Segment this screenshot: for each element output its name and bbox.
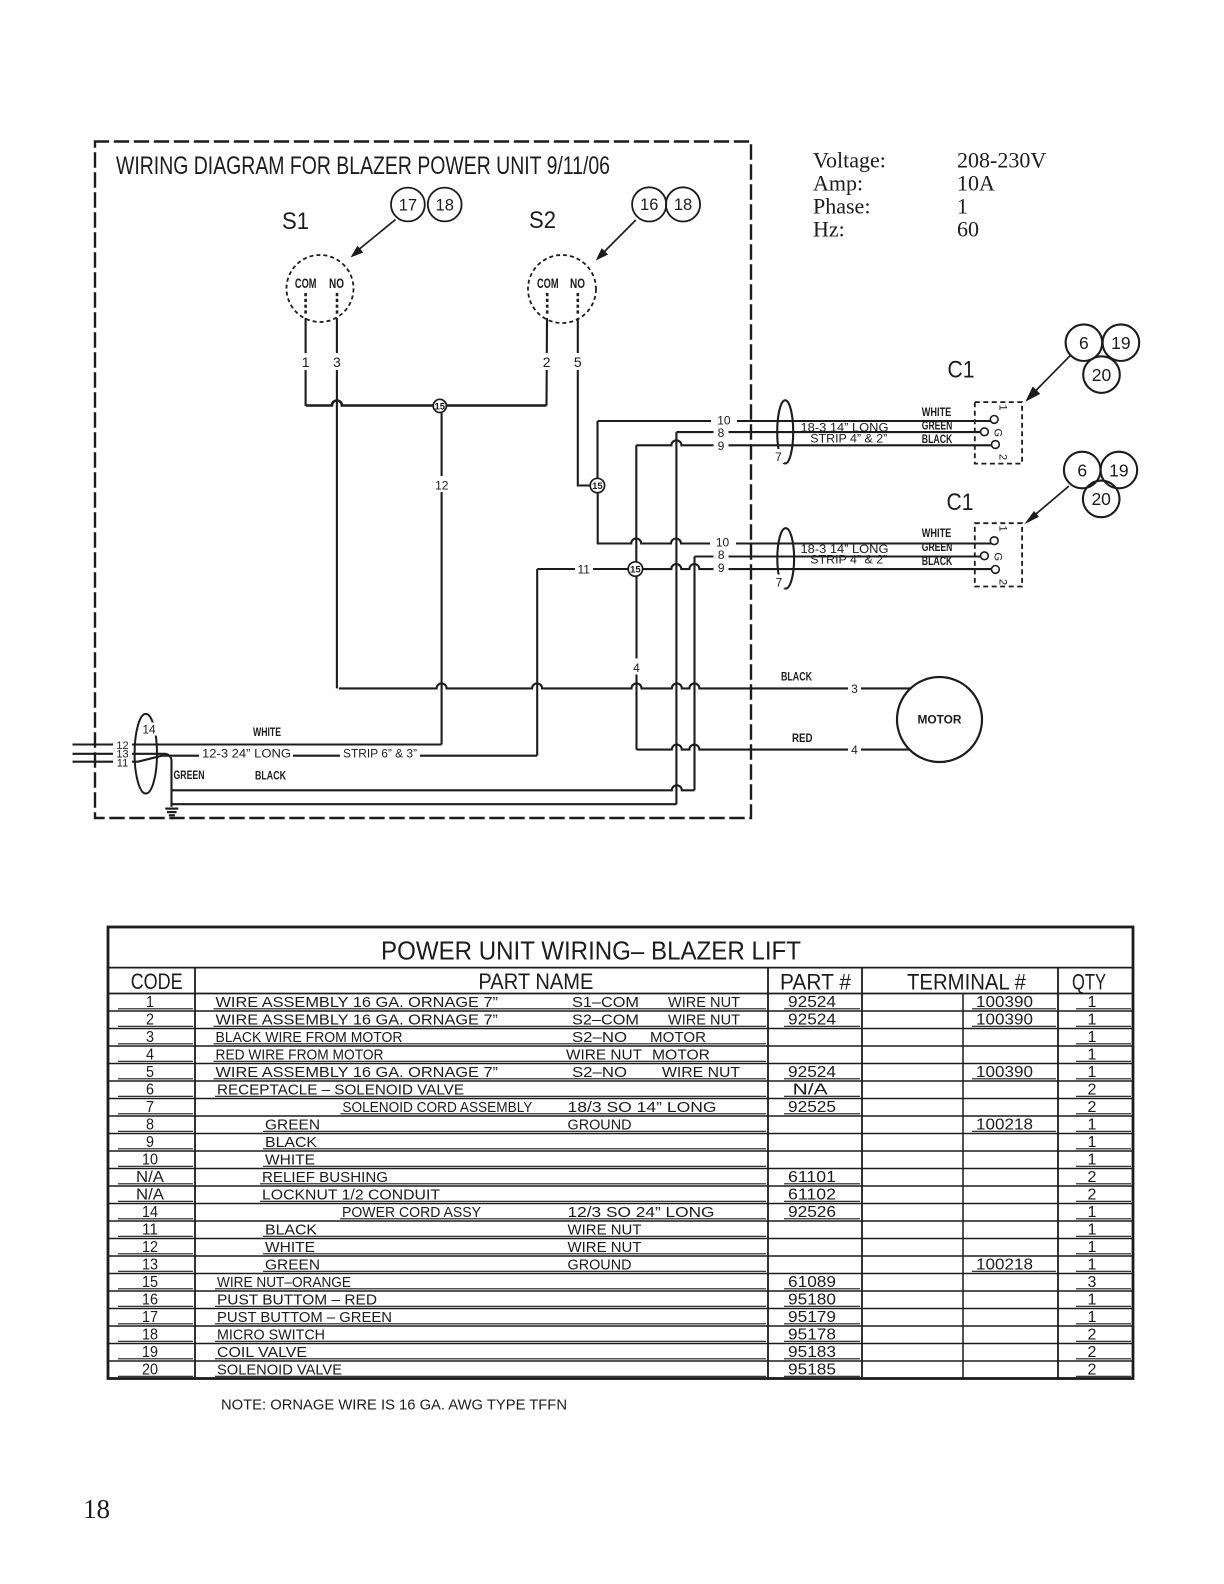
svg-text:19: 19 [1109, 460, 1128, 480]
C1 upper pin 2 [992, 441, 1009, 461]
table row 14 separator [108, 1238, 1133, 1240]
row 17 part name WIRE [215, 1274, 766, 1291]
svg-text:2: 2 [997, 579, 1009, 585]
wire 12 white from cord to wire nut A [434, 412, 450, 744]
svg-text:STRIP 4” & 2”: STRIP 4” & 2” [810, 552, 887, 566]
svg-text:POWER UNIT WIRING– BLAZER LIFT: POWER UNIT WIRING– BLAZER LIFT [381, 936, 801, 966]
wire 9 to connector C1 upper [636, 439, 991, 562]
svg-text:BLACK: BLACK [922, 556, 953, 568]
table row 15 separator [108, 1255, 1133, 1257]
row 7 code 7 [118, 1099, 193, 1116]
callout circle 6 lower [1064, 452, 1101, 489]
row 6 qty 2 [1076, 1082, 1131, 1099]
row 18 code 16 [118, 1292, 193, 1309]
row 12 code N/A [118, 1187, 193, 1204]
row 19 part number 95179 [784, 1309, 860, 1326]
S1 COM pin stub [304, 293, 307, 315]
row 9 part name BLACK [263, 1134, 766, 1151]
svg-text:WHITE: WHITE [922, 407, 952, 419]
table row 10 separator [108, 1168, 1133, 1170]
svg-text:TERMINAL #: TERMINAL # [907, 970, 1027, 995]
svg-text:WIRING DIAGRAM FOR BLAZER POWE: WIRING DIAGRAM FOR BLAZER POWER UNIT 9/1… [116, 152, 610, 180]
row 8 qty 1 [1076, 1117, 1131, 1134]
row 8 code 8 [118, 1117, 193, 1134]
table row 21 separator [108, 1360, 1133, 1362]
leader arrow to S2 [596, 220, 636, 261]
row 9 qty 1 [1076, 1134, 1131, 1151]
row 4 qty 1 [1076, 1047, 1131, 1064]
svg-text:QTY: QTY [1072, 970, 1106, 995]
table column dividers [195, 968, 1058, 1379]
row 13 part number 92526 [784, 1204, 860, 1221]
svg-text:1: 1 [997, 526, 1009, 532]
svg-text:4: 4 [851, 743, 858, 757]
row 18 part number 95180 [784, 1292, 860, 1309]
row 19 qty 1 [1076, 1309, 1131, 1326]
cord conductor labels 12 13 11 [113, 740, 132, 769]
row 16 terminal number 100218 [972, 1257, 1056, 1274]
svg-text:NOTE: ORNAGE WIRE IS 16 GA. AW: NOTE: ORNAGE WIRE IS 16 GA. AWG TYPE TFF… [221, 1397, 567, 1414]
svg-text:WHITE: WHITE [922, 528, 952, 540]
svg-text:14: 14 [142, 723, 156, 737]
svg-text:STRIP 4” & 2”: STRIP 4” & 2” [810, 432, 887, 446]
svg-text:3: 3 [333, 354, 341, 370]
row 13 part name POWER [340, 1204, 766, 1221]
row 6 code 6 [118, 1082, 193, 1099]
row 10 part name WHITE [263, 1152, 766, 1169]
row 12 qty 2 [1076, 1187, 1131, 1204]
row 20 part number 95178 [784, 1327, 860, 1344]
C1 upper pin 1 [990, 405, 1008, 424]
table row 3 separator [108, 1045, 1133, 1047]
svg-text:BLACK: BLACK [255, 770, 287, 782]
svg-text:STRIP 6” & 3”: STRIP 6” & 3” [343, 746, 417, 760]
row 21 qty 2 [1076, 1344, 1131, 1361]
table row 8 separator [108, 1133, 1133, 1135]
row 1 terminal number 100390 [972, 994, 1056, 1011]
svg-text:GREEN: GREEN [922, 420, 953, 432]
svg-text:GREEN: GREEN [174, 770, 205, 782]
row 7 part number 92525 [784, 1099, 860, 1116]
row 17 qty 3 [1076, 1274, 1131, 1291]
wire 5 S2-NO to wire nut B [571, 318, 590, 486]
svg-text:20: 20 [1091, 489, 1111, 509]
table row 7 separator [108, 1115, 1133, 1117]
leader arrow to S1 [351, 220, 396, 258]
wire nut 15 junction A [433, 399, 446, 412]
row 6 part name RECEPTACLE [215, 1082, 766, 1099]
leader arrow to C1 lower [1024, 486, 1069, 524]
row 5 code 5 [118, 1064, 193, 1081]
cord cable note 12-3 24in LONG [199, 747, 293, 761]
power cord black conductor [73, 756, 538, 762]
row 19 part name PUST [215, 1309, 766, 1326]
svg-text:3: 3 [851, 682, 858, 696]
svg-text:16: 16 [640, 196, 658, 214]
callout circle 20 lower [1083, 481, 1120, 518]
table row 1 separator [108, 1010, 1133, 1012]
row 22 part number 95185 [784, 1362, 860, 1379]
callout circle 6 upper [1066, 324, 1103, 361]
table row 4 separator [108, 1063, 1133, 1065]
table row 13 separator [108, 1220, 1133, 1222]
green wire vertical from C1 upper to ground bus [675, 432, 677, 804]
table row 18 separator [108, 1308, 1133, 1310]
svg-text:2: 2 [997, 454, 1009, 460]
svg-text:RED: RED [792, 733, 813, 745]
row 21 part name COIL [215, 1344, 766, 1361]
motor M1 [897, 677, 982, 762]
table title separator [108, 967, 1133, 969]
svg-text:PART #: PART # [780, 970, 852, 995]
row 3 code 3 [118, 1029, 193, 1046]
wire 10 to connector C1 upper [598, 413, 991, 479]
svg-text:12: 12 [435, 478, 449, 492]
row 20 code 18 [118, 1327, 193, 1344]
svg-text:12-3 24” LONG: 12-3 24” LONG [202, 747, 291, 761]
switch S2 dashed body [528, 255, 596, 323]
row 1 code 1 [118, 994, 193, 1011]
svg-text:1: 1 [302, 354, 310, 370]
row 14 qty 1 [1076, 1222, 1131, 1239]
row 11 qty 2 [1076, 1169, 1131, 1186]
svg-text:15: 15 [592, 481, 603, 492]
svg-text:C1: C1 [948, 357, 975, 384]
green ground bus to C1 lower [172, 785, 695, 790]
diagram dashed border frame [95, 142, 751, 819]
wire 11 from power cord to wire nut C [537, 562, 628, 756]
table row 12 separator [108, 1203, 1133, 1205]
cable bundle ellipse 7 upper [773, 400, 793, 464]
svg-text:GREEN: GREEN [922, 542, 953, 554]
row 1 part name WIRE [214, 994, 767, 1011]
row 14 part name BLACK [263, 1222, 766, 1239]
table row 11 separator [108, 1185, 1133, 1187]
S1 NO pin stub [336, 293, 339, 315]
row 17 code 15 [118, 1274, 193, 1291]
leader arrow to C1 upper [1025, 356, 1070, 402]
row 11 part name RELIEF [260, 1169, 766, 1186]
wire S1-COM to S2-COM horizontal [306, 401, 547, 406]
row 7 qty 2 [1076, 1099, 1131, 1116]
row 4 code 4 [118, 1047, 193, 1064]
row 2 code 2 [118, 1012, 193, 1029]
row 8 part name GREEN [263, 1117, 766, 1134]
cord cable note STRIP 6 and 3 [340, 746, 420, 760]
S2 NO pin stub [576, 293, 579, 315]
row 16 code 13 [118, 1257, 193, 1274]
callout circle 18 (S2) [666, 187, 700, 221]
svg-text:9: 9 [718, 561, 725, 575]
row 10 qty 1 [1076, 1152, 1131, 1169]
svg-text:18: 18 [83, 1494, 110, 1524]
svg-text:20: 20 [1092, 365, 1112, 385]
wire nut 15 junction B [590, 478, 604, 492]
svg-text:208-230V: 208-230V [957, 148, 1046, 173]
svg-text:9: 9 [718, 439, 725, 453]
cable bundle ellipse 7 lower [774, 528, 795, 589]
row 8 terminal number 100218 [972, 1117, 1056, 1134]
row 15 code 12 [118, 1239, 193, 1256]
row 5 terminal number 100390 [972, 1064, 1056, 1081]
callout circle 16 [632, 187, 666, 221]
wire 8 green to connector C1 lower [695, 548, 982, 562]
row 12 part number 61102 [784, 1187, 860, 1204]
svg-text:S1: S1 [282, 208, 309, 235]
C1 lower pin G [981, 552, 1004, 561]
svg-text:2: 2 [543, 354, 551, 370]
green wire vertical from C1 lower to ground bus [693, 557, 695, 791]
svg-text:15: 15 [435, 401, 446, 412]
svg-text:Hz:: Hz: [813, 217, 845, 242]
svg-text:NO: NO [329, 276, 344, 291]
row 9 code 9 [118, 1134, 193, 1151]
svg-text:BLACK: BLACK [922, 434, 953, 446]
row 2 part number 92524 [784, 1012, 860, 1029]
row 20 qty 2 [1076, 1327, 1131, 1344]
callout circle 18 (S1) [428, 188, 462, 222]
connector C1 lower dashed box [975, 523, 1022, 586]
power cord bundle ellipse 14 [135, 714, 158, 794]
svg-text:Voltage:: Voltage: [813, 148, 886, 173]
wire 10 to connector C1 lower [598, 493, 993, 550]
svg-text:MOTOR: MOTOR [918, 713, 962, 727]
svg-text:G: G [992, 553, 1004, 562]
svg-text:PART NAME: PART NAME [478, 969, 593, 994]
svg-text:6: 6 [1079, 333, 1089, 353]
row 3 qty 1 [1076, 1029, 1131, 1046]
row 5 qty 1 [1076, 1064, 1131, 1081]
row 2 qty 1 [1076, 1012, 1131, 1029]
callout circle 19 lower [1101, 452, 1138, 489]
table header separator [108, 993, 1133, 995]
row 2 part name WIRE [214, 1012, 767, 1029]
svg-text:CODE: CODE [131, 969, 183, 994]
callout circle 17 [391, 188, 425, 222]
ground symbol [165, 809, 178, 819]
row 3 part name BLACK [214, 1029, 767, 1046]
power cord green conductor [73, 754, 172, 807]
row 22 part name SOLENOID [215, 1362, 766, 1379]
row 18 part name PUST [215, 1292, 766, 1309]
svg-text:WHITE: WHITE [253, 727, 281, 739]
svg-text:8: 8 [718, 548, 725, 562]
table row 2 separator [108, 1028, 1133, 1030]
svg-text:10A: 10A [957, 171, 995, 196]
switch S1 dashed body [287, 255, 354, 322]
svg-text:19: 19 [1111, 333, 1130, 353]
svg-text:5: 5 [574, 354, 582, 370]
row 18 qty 1 [1076, 1292, 1131, 1309]
row 1 part number 92524 [784, 994, 860, 1011]
row 22 qty 2 [1076, 1362, 1131, 1379]
wire 9 to connector C1 lower [643, 561, 993, 576]
wire 2 S2-COM down [540, 318, 553, 406]
svg-text:18: 18 [436, 196, 454, 214]
row 16 qty 1 [1076, 1257, 1131, 1274]
row 21 code 19 [118, 1344, 193, 1361]
row 15 part name WHITE [263, 1239, 766, 1256]
row 22 code 20 [118, 1362, 193, 1379]
C1 upper pin G [981, 428, 1004, 437]
svg-text:4: 4 [633, 661, 640, 675]
table row 19 separator [108, 1325, 1133, 1327]
row 20 part name MICRO [215, 1327, 766, 1344]
row 13 qty 1 [1076, 1204, 1131, 1221]
row 11 part number 61101 [784, 1169, 860, 1186]
row 11 code N/A [118, 1169, 193, 1186]
row 13 code 14 [118, 1204, 193, 1221]
svg-text:7: 7 [776, 576, 783, 590]
callout circle 20 upper [1083, 356, 1120, 393]
svg-text:15: 15 [630, 565, 641, 576]
svg-text:7: 7 [775, 450, 782, 464]
row 6 part number N/A [784, 1082, 860, 1099]
wire 4 red motor wire to wire nut C [630, 576, 643, 749]
wire 8 green to connector C1 upper [676, 426, 980, 441]
table row 6 separator [108, 1098, 1133, 1100]
cord wire label GREEN [173, 769, 207, 783]
svg-text:Phase:: Phase: [813, 194, 870, 219]
svg-text:11: 11 [117, 757, 128, 769]
connector C1 upper dashed box [975, 402, 1022, 464]
row 10 code 10 [118, 1152, 193, 1169]
svg-text:1: 1 [957, 194, 968, 219]
table row 20 separator [108, 1343, 1133, 1345]
row 7 part name SOLENOID [340, 1099, 766, 1116]
svg-text:17: 17 [399, 196, 417, 214]
row 19 code 17 [118, 1309, 193, 1326]
table row 16 separator [108, 1273, 1133, 1275]
row 16 part name GREEN [263, 1257, 766, 1274]
row 1 qty 1 [1076, 994, 1131, 1011]
green ground bus to C1 upper [172, 803, 677, 805]
table row 5 separator [108, 1080, 1133, 1082]
svg-text:11: 11 [577, 563, 590, 577]
row 5 part name WIRE [214, 1064, 767, 1081]
svg-text:COM: COM [295, 276, 317, 291]
svg-text:G: G [992, 429, 1004, 438]
S2 COM pin stub [546, 293, 549, 315]
svg-text:BLACK: BLACK [781, 671, 813, 683]
wire 4 red line to motor [637, 743, 910, 757]
callout circle 19 upper [1103, 324, 1140, 361]
svg-text:18: 18 [674, 196, 692, 214]
row 21 part number 95183 [784, 1344, 860, 1361]
row 14 code 11 [118, 1222, 193, 1239]
svg-text:C1: C1 [947, 489, 974, 516]
wire nut 15 junction C [628, 562, 642, 576]
svg-text:NO: NO [570, 276, 585, 291]
svg-text:60: 60 [957, 217, 979, 242]
row 4 part name RED [214, 1047, 767, 1064]
wire 3 black line to motor [339, 682, 912, 696]
row 2 terminal number 100390 [972, 1012, 1056, 1029]
power cord white conductor [73, 743, 442, 745]
svg-text:S2: S2 [529, 207, 556, 234]
wire 1 S1-COM down [299, 318, 312, 406]
table row 17 separator [108, 1290, 1133, 1292]
row 15 qty 1 [1076, 1239, 1131, 1256]
svg-text:6: 6 [1077, 460, 1087, 480]
C1 lower pin 2 [992, 566, 1009, 586]
row 5 part number 92524 [784, 1064, 860, 1081]
C1 lower pin 1 [990, 526, 1008, 545]
svg-text:Amp:: Amp: [813, 171, 863, 196]
table row 9 separator [108, 1150, 1133, 1152]
svg-text:1: 1 [997, 405, 1009, 411]
parts table outer border [108, 927, 1133, 1379]
wire 3 S1-NO down [330, 318, 343, 688]
svg-text:COM: COM [537, 276, 559, 291]
row 12 part name LOCKNUT [260, 1187, 766, 1204]
row 17 part number 61089 [784, 1274, 860, 1291]
